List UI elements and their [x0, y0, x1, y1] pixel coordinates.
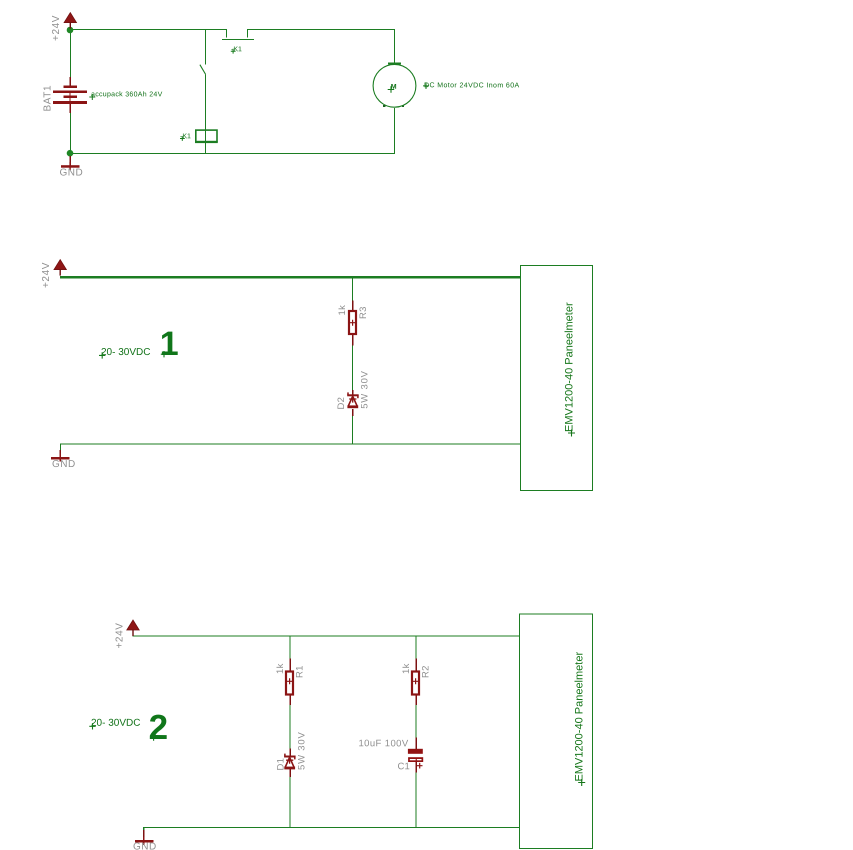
- svg-text:+24V: +24V: [114, 622, 125, 648]
- svg-text:EMV1200-40 Paneelmeter: EMV1200-40 Paneelmeter: [574, 652, 586, 782]
- svg-text:1k: 1k: [401, 663, 412, 674]
- svg-text:D2: D2: [336, 397, 347, 410]
- svg-text:GND: GND: [52, 459, 76, 470]
- svg-text:GND: GND: [59, 168, 83, 179]
- svg-text:-K1: -K1: [180, 133, 191, 140]
- svg-text:GND: GND: [133, 842, 157, 850]
- svg-text:+24V: +24V: [41, 262, 52, 288]
- svg-text:DC Motor 24VDC Inom 60A: DC Motor 24VDC Inom 60A: [424, 82, 520, 89]
- svg-text:2: 2: [149, 708, 168, 747]
- svg-text:5W 30V: 5W 30V: [296, 731, 307, 770]
- svg-text:R1: R1: [295, 665, 306, 678]
- svg-text:20- 30VDC: 20- 30VDC: [91, 718, 140, 729]
- svg-text:20- 30VDC: 20- 30VDC: [101, 347, 150, 358]
- svg-text:10uF 100V: 10uF 100V: [358, 738, 408, 749]
- svg-text:BAT1: BAT1: [43, 85, 54, 112]
- svg-text:C1: C1: [397, 761, 410, 772]
- svg-text:+24V: +24V: [51, 15, 62, 41]
- svg-text:EMV1200-40 Paneelmeter: EMV1200-40 Paneelmeter: [564, 302, 576, 432]
- svg-text:5W 30V: 5W 30V: [359, 370, 370, 409]
- svg-text:1k: 1k: [275, 663, 286, 674]
- svg-text:accupack 360Ah 24V: accupack 360Ah 24V: [91, 91, 163, 98]
- svg-text:1k: 1k: [337, 305, 348, 316]
- svg-text:D1: D1: [275, 758, 286, 771]
- svg-text:R2: R2: [421, 665, 432, 678]
- svg-text:R3: R3: [358, 306, 369, 319]
- svg-text:1: 1: [160, 325, 179, 363]
